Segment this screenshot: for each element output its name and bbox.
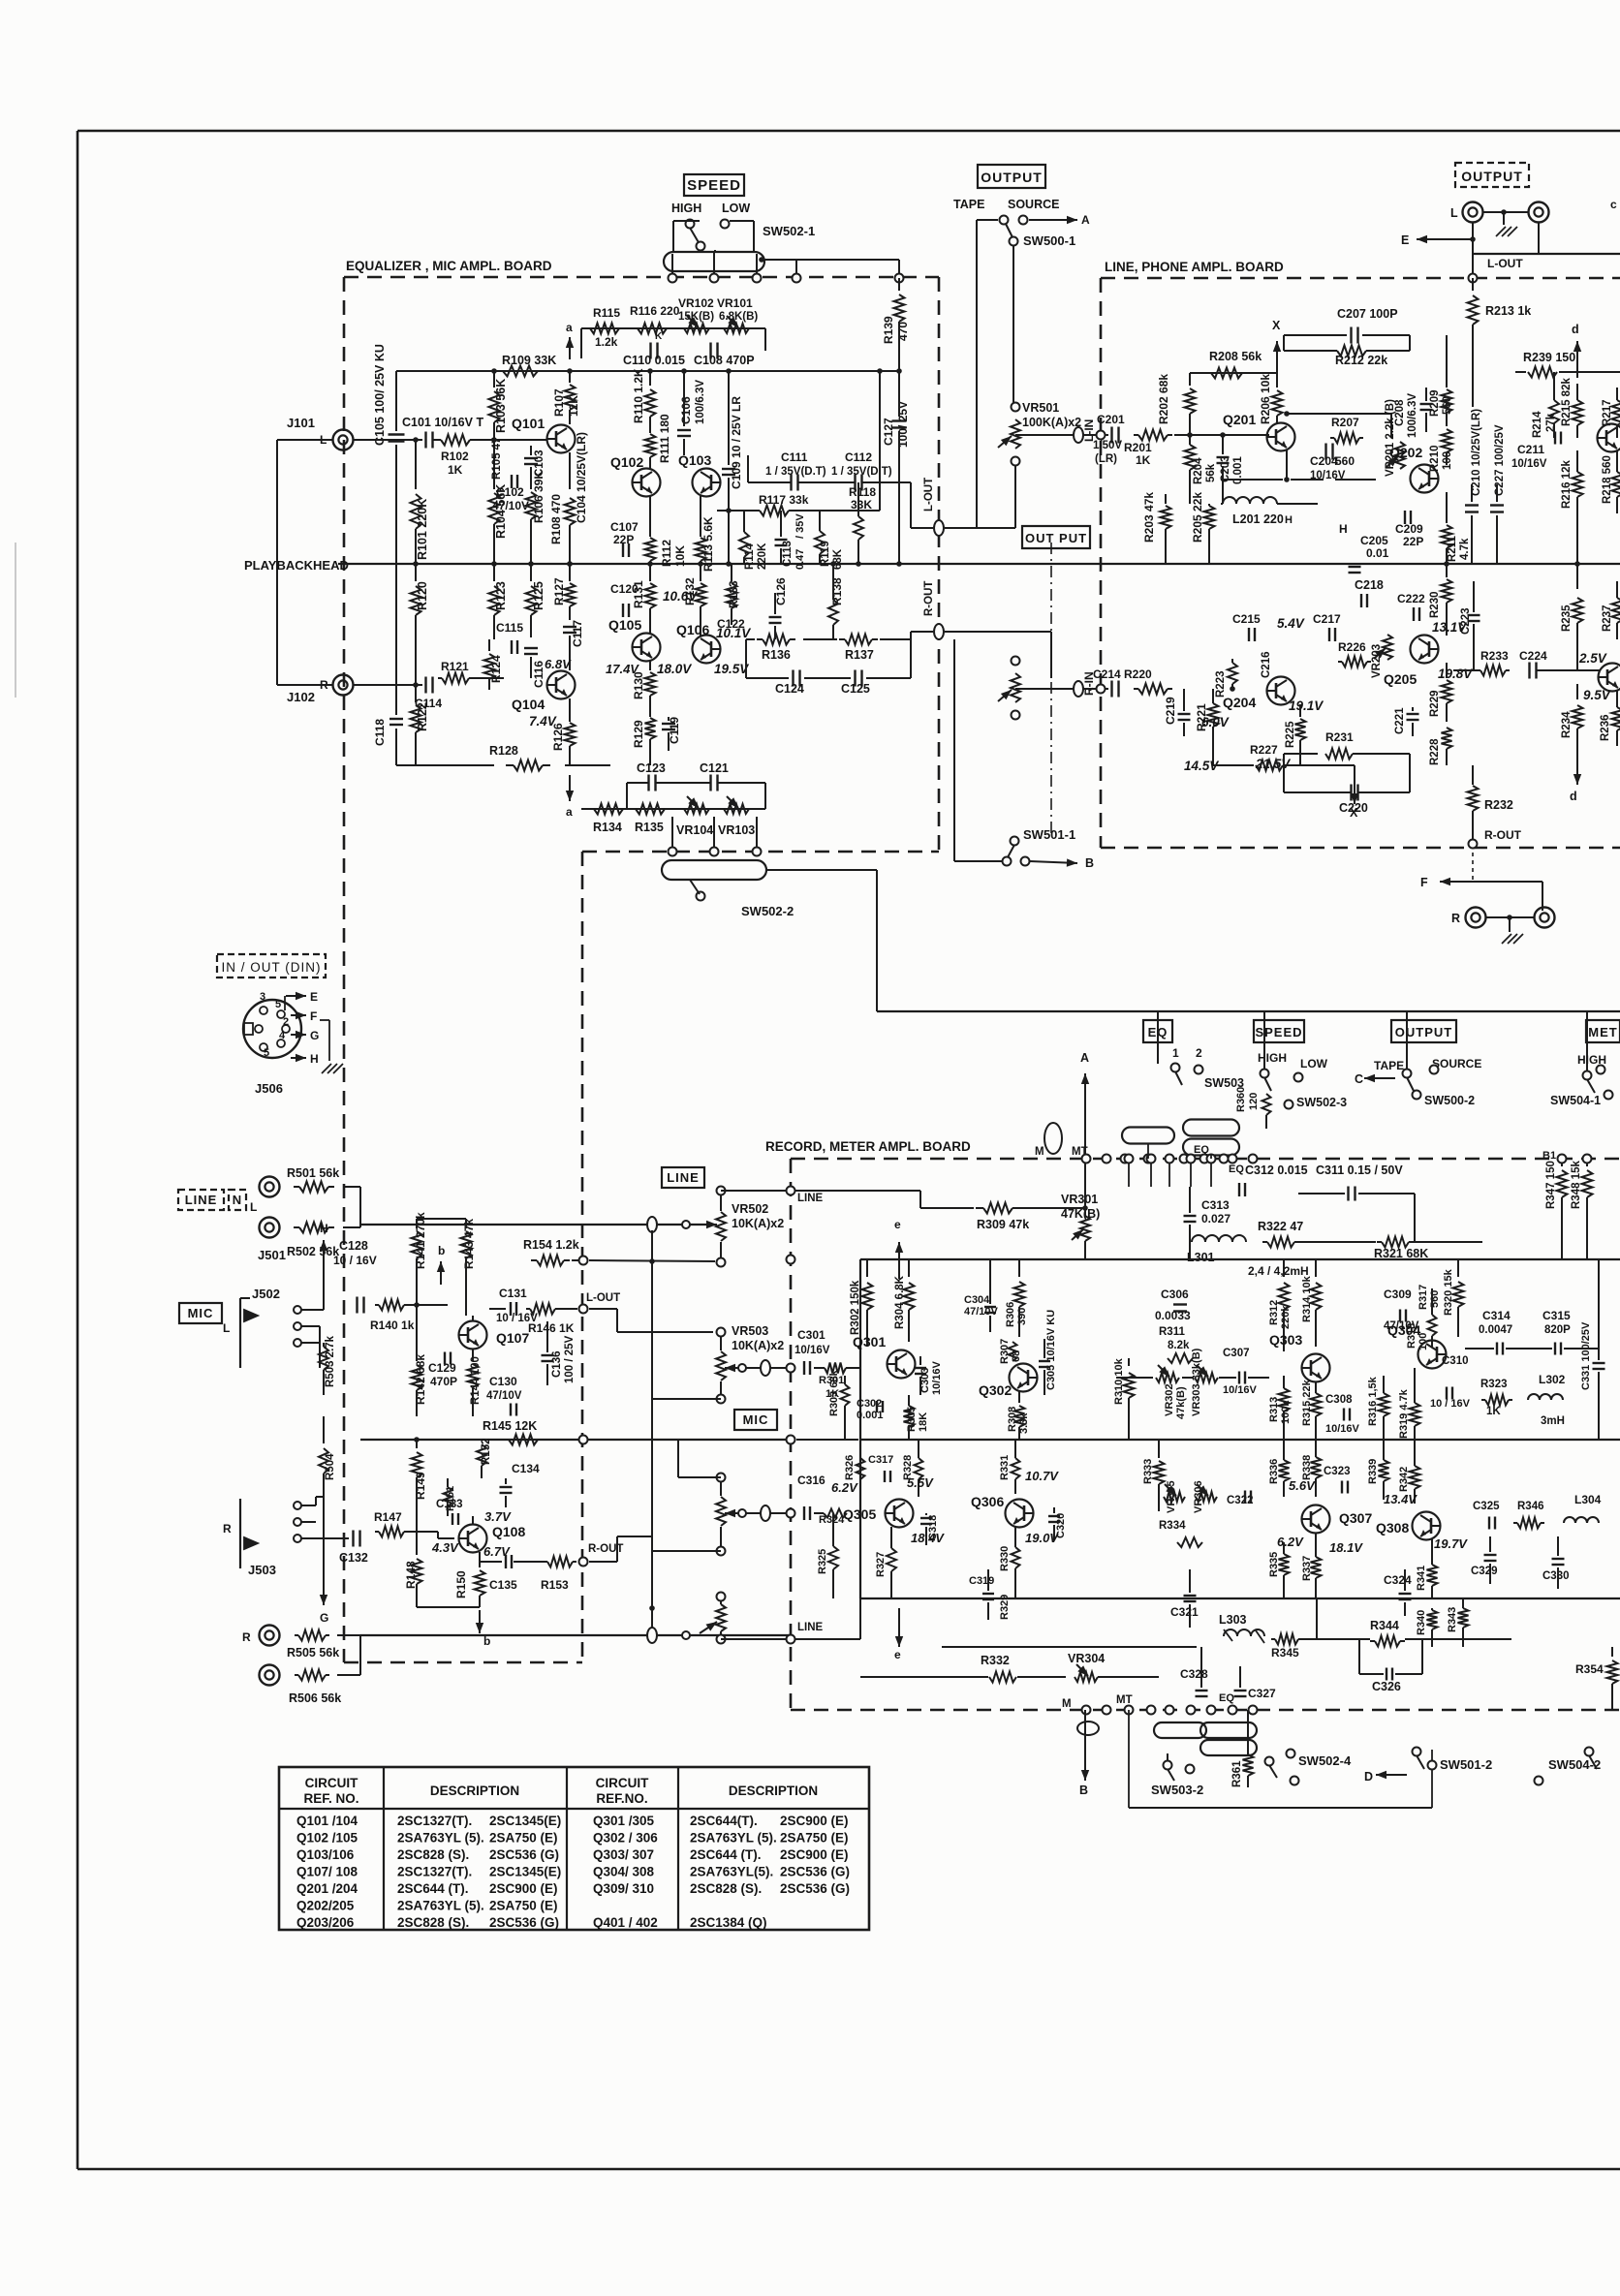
svg-text:R150: R150 xyxy=(454,1570,468,1598)
svg-text:C328: C328 xyxy=(1180,1667,1208,1681)
svg-text:C316: C316 xyxy=(797,1474,826,1487)
svg-text:Q103: Q103 xyxy=(678,452,711,468)
svg-text:RECORD, METER AMPL. BOARD: RECORD, METER AMPL. BOARD xyxy=(765,1139,971,1154)
svg-text:5.4V: 5.4V xyxy=(1277,616,1305,631)
svg-text:6.8K(B): 6.8K(B) xyxy=(719,311,758,323)
svg-text:L201 220: L201 220 xyxy=(1232,512,1284,526)
svg-text:Q303/ 307: Q303/ 307 xyxy=(593,1847,654,1862)
svg-text:Q105: Q105 xyxy=(608,617,641,633)
svg-text:4.7k: 4.7k xyxy=(1459,538,1471,560)
svg-text:LINE: LINE xyxy=(797,1622,824,1633)
svg-text:E: E xyxy=(310,990,318,1004)
svg-text:10K: 10K xyxy=(673,545,687,567)
svg-text:2SC1345(E): 2SC1345(E) xyxy=(489,1865,561,1879)
svg-text:R233: R233 xyxy=(1480,649,1509,663)
svg-text:D: D xyxy=(1364,1770,1373,1784)
svg-text:C134: C134 xyxy=(512,1462,540,1475)
svg-text:VR103: VR103 xyxy=(718,823,755,837)
svg-text:C312 0.015: C312 0.015 xyxy=(1245,1164,1308,1177)
svg-text:100/6.3V: 100/6.3V xyxy=(1407,393,1418,438)
svg-text:1 / 35V(D.T): 1 / 35V(D.T) xyxy=(765,466,826,478)
svg-text:R331: R331 xyxy=(999,1455,1011,1480)
svg-text:SPEED: SPEED xyxy=(687,177,741,194)
svg-text:Q301 /305: Q301 /305 xyxy=(593,1814,655,1828)
svg-text:H: H xyxy=(310,1052,319,1066)
svg-text:820P: 820P xyxy=(1544,1324,1571,1336)
svg-text:B1: B1 xyxy=(1542,1150,1556,1162)
svg-text:Q308: Q308 xyxy=(1376,1520,1409,1536)
svg-text:R117 33k: R117 33k xyxy=(759,493,809,507)
svg-text:Q307: Q307 xyxy=(1339,1510,1372,1526)
svg-text:2SA763YL (5).: 2SA763YL (5). xyxy=(397,1831,484,1846)
svg-text:Q107/ 108: Q107/ 108 xyxy=(296,1865,358,1879)
svg-text:H: H xyxy=(1285,514,1293,526)
svg-text:22P: 22P xyxy=(1403,535,1423,548)
svg-text:R118: R118 xyxy=(849,485,876,499)
svg-text:R103 56K: R103 56K xyxy=(494,379,508,433)
svg-text:5: 5 xyxy=(275,999,281,1010)
svg-text:R316 1,5k: R316 1,5k xyxy=(1367,1376,1379,1426)
svg-text:REF.NO.: REF.NO. xyxy=(596,1791,647,1806)
svg-text:EQUALIZER , MIC AMPL. BOARD: EQUALIZER , MIC AMPL. BOARD xyxy=(346,259,552,273)
svg-text:Q305: Q305 xyxy=(843,1506,876,1522)
svg-text:6.2V: 6.2V xyxy=(1277,1535,1304,1549)
svg-text:R342: R342 xyxy=(1398,1467,1410,1492)
svg-text:C101 10/16V T: C101 10/16V T xyxy=(402,416,483,429)
svg-text:C301: C301 xyxy=(797,1328,826,1342)
svg-text:SW504-2: SW504-2 xyxy=(1548,1757,1601,1772)
svg-text:R314 10k: R314 10k xyxy=(1301,1275,1313,1322)
svg-text:SW500-1: SW500-1 xyxy=(1023,233,1075,248)
svg-text:2,4 / 4,2mH: 2,4 / 4,2mH xyxy=(1248,1264,1309,1278)
svg-text:5.5V: 5.5V xyxy=(907,1475,934,1490)
svg-text:Q102: Q102 xyxy=(610,454,643,470)
svg-text:0.027: 0.027 xyxy=(1201,1212,1231,1226)
svg-text:10/16V: 10/16V xyxy=(1223,1384,1258,1396)
svg-text:L303: L303 xyxy=(1219,1613,1247,1627)
svg-text:10/16V: 10/16V xyxy=(1310,470,1346,481)
svg-text:J502: J502 xyxy=(252,1287,280,1301)
svg-text:R135: R135 xyxy=(635,821,664,834)
svg-text:a: a xyxy=(566,805,573,819)
svg-text:TAPE: TAPE xyxy=(953,198,984,211)
svg-text:470P: 470P xyxy=(430,1375,457,1388)
svg-text:C104 10/25V(LR): C104 10/25V(LR) xyxy=(575,432,588,523)
svg-text:J101: J101 xyxy=(287,416,315,430)
svg-text:R220: R220 xyxy=(1124,667,1152,681)
svg-text:VR101: VR101 xyxy=(717,296,753,310)
svg-text:b: b xyxy=(438,1244,445,1257)
svg-text:SW501-2: SW501-2 xyxy=(1440,1757,1492,1772)
svg-text:C108 470P: C108 470P xyxy=(694,354,755,367)
svg-text:2SA763YL (5).: 2SA763YL (5). xyxy=(690,1831,777,1846)
svg-text:4.3V: 4.3V xyxy=(431,1540,459,1555)
svg-text:6.2V: 6.2V xyxy=(831,1480,858,1495)
svg-text:R340: R340 xyxy=(1416,1610,1427,1635)
svg-text:1/50V: 1/50V xyxy=(1093,440,1122,451)
svg-text:C327: C327 xyxy=(1248,1687,1276,1700)
svg-text:SW503-2: SW503-2 xyxy=(1151,1783,1203,1797)
svg-text:R107: R107 xyxy=(552,388,566,417)
svg-text:C116: C116 xyxy=(532,661,545,688)
svg-text:SW502-1: SW502-1 xyxy=(763,224,815,238)
svg-text:15K(B): 15K(B) xyxy=(678,311,714,323)
svg-text:VR501: VR501 xyxy=(1022,401,1059,415)
svg-text:Q205: Q205 xyxy=(1384,671,1417,687)
svg-text:R129: R129 xyxy=(632,720,645,748)
svg-text:C219: C219 xyxy=(1164,697,1177,725)
svg-text:13.4V: 13.4V xyxy=(1384,1492,1417,1506)
svg-text:HIGH: HIGH xyxy=(1258,1051,1287,1065)
svg-text:2SC828 (S).: 2SC828 (S). xyxy=(397,1847,469,1862)
svg-text:C302: C302 xyxy=(857,1398,882,1410)
svg-text:H: H xyxy=(320,1222,328,1235)
svg-text:C304: C304 xyxy=(964,1294,990,1306)
svg-text:LINE: LINE xyxy=(185,1193,218,1207)
svg-text:M: M xyxy=(1062,1698,1072,1710)
svg-text:C122: C122 xyxy=(717,617,745,631)
svg-text:R341: R341 xyxy=(1416,1566,1427,1591)
svg-text:2SC1327(T).: 2SC1327(T). xyxy=(397,1814,472,1828)
svg-text:OUT PUT: OUT PUT xyxy=(1025,531,1087,545)
svg-text:R134: R134 xyxy=(593,821,622,834)
svg-text:A: A xyxy=(1080,1051,1089,1065)
svg-text:C210 10/25V(LR): C210 10/25V(LR) xyxy=(1471,409,1482,496)
svg-text:C121: C121 xyxy=(700,761,729,775)
svg-text:C135: C135 xyxy=(489,1578,517,1592)
svg-text:M: M xyxy=(1035,1146,1044,1158)
svg-text:MIC: MIC xyxy=(743,1412,769,1427)
svg-text:1: 1 xyxy=(1172,1046,1179,1060)
svg-text:EQ: EQ xyxy=(1229,1164,1244,1175)
svg-text:R315 22k: R315 22k xyxy=(1301,1379,1313,1426)
svg-text:C124: C124 xyxy=(775,682,804,696)
svg-text:N: N xyxy=(233,1193,242,1207)
svg-text:R333: R333 xyxy=(1142,1459,1154,1484)
svg-text:J506: J506 xyxy=(255,1081,283,1096)
svg-text:R229: R229 xyxy=(1429,691,1441,718)
svg-text:G: G xyxy=(320,1611,328,1625)
svg-text:C105 100/ 25V KU: C105 100/ 25V KU xyxy=(373,344,387,446)
svg-text:R121: R121 xyxy=(441,660,469,673)
svg-text:R354: R354 xyxy=(1575,1662,1604,1676)
svg-text:R309 47k: R309 47k xyxy=(977,1218,1029,1231)
svg-text:C314: C314 xyxy=(1482,1309,1511,1322)
svg-text:R501 56k: R501 56k xyxy=(287,1166,339,1180)
svg-text:MT: MT xyxy=(1116,1694,1133,1706)
svg-text:C218: C218 xyxy=(1355,578,1384,592)
svg-text:c: c xyxy=(1610,198,1617,211)
svg-text:3: 3 xyxy=(260,991,265,1003)
svg-text:R301: R301 xyxy=(819,1375,844,1386)
svg-text:2SC900 (E): 2SC900 (E) xyxy=(780,1814,849,1828)
svg-text:C126: C126 xyxy=(774,577,788,605)
svg-text:2SC828 (S).: 2SC828 (S). xyxy=(690,1881,762,1896)
svg-text:R311: R311 xyxy=(1159,1326,1185,1338)
svg-text:2SC1384 (Q): 2SC1384 (Q) xyxy=(690,1915,767,1930)
svg-text:b: b xyxy=(483,1634,490,1648)
svg-text:SW504-1: SW504-1 xyxy=(1550,1094,1601,1107)
svg-text:Q106: Q106 xyxy=(676,622,709,637)
svg-text:10 / 16V: 10 / 16V xyxy=(1430,1398,1471,1410)
svg-text:F: F xyxy=(1420,876,1428,889)
svg-text:J102: J102 xyxy=(287,690,315,704)
svg-text:C330: C330 xyxy=(1542,1570,1570,1582)
svg-text:C207 100P: C207 100P xyxy=(1337,307,1398,321)
svg-text:Q401 / 402: Q401 / 402 xyxy=(593,1915,658,1930)
svg-text:2SC1327(T).: 2SC1327(T). xyxy=(397,1865,472,1879)
svg-text:B: B xyxy=(1085,856,1094,870)
svg-text:R111 180: R111 180 xyxy=(658,414,671,463)
svg-text:REF. NO.: REF. NO. xyxy=(303,1791,358,1806)
svg-text:R230: R230 xyxy=(1429,592,1441,619)
svg-text:R228: R228 xyxy=(1429,738,1441,765)
svg-text:J501: J501 xyxy=(258,1248,286,1262)
svg-text:R323: R323 xyxy=(1480,1379,1508,1390)
svg-text:R336: R336 xyxy=(1268,1459,1280,1484)
svg-text:R234: R234 xyxy=(1561,711,1573,738)
svg-text:R145 12K: R145 12K xyxy=(483,1419,537,1433)
svg-text:Q304/ 308: Q304/ 308 xyxy=(593,1865,655,1879)
svg-text:10/16V: 10/16V xyxy=(1511,458,1547,470)
svg-text:C201: C201 xyxy=(1097,413,1125,426)
svg-text:R506 56k: R506 56k xyxy=(289,1691,341,1705)
svg-text:1 / 35V(D.T): 1 / 35V(D.T) xyxy=(831,466,892,478)
svg-text:C203: C203 xyxy=(1220,456,1231,483)
svg-text:18.1V: 18.1V xyxy=(1329,1540,1363,1555)
svg-text:C329: C329 xyxy=(1471,1566,1498,1577)
svg-text:C217: C217 xyxy=(1313,612,1341,626)
svg-text:R130: R130 xyxy=(632,671,645,699)
svg-text:9.5V: 9.5V xyxy=(1583,688,1611,702)
svg-text:1K: 1K xyxy=(1136,453,1151,467)
svg-text:B: B xyxy=(1079,1784,1088,1797)
svg-text:F: F xyxy=(310,1009,317,1023)
svg-text:L: L xyxy=(1450,206,1458,220)
svg-text:C130: C130 xyxy=(489,1375,517,1388)
svg-text:EQ: EQ xyxy=(1219,1692,1234,1704)
svg-text:R361: R361 xyxy=(1231,1760,1243,1787)
svg-text:C310: C310 xyxy=(1442,1355,1469,1367)
svg-text:R332: R332 xyxy=(981,1654,1010,1667)
svg-text:K: K xyxy=(655,331,663,342)
svg-text:C205: C205 xyxy=(1360,534,1388,547)
svg-text:2SC828 (S).: 2SC828 (S). xyxy=(397,1915,469,1930)
svg-text:2.5V: 2.5V xyxy=(1578,651,1607,666)
svg-text:47/10V: 47/10V xyxy=(486,1390,522,1402)
svg-text:LOW: LOW xyxy=(722,202,750,215)
svg-text:CIRCUIT: CIRCUIT xyxy=(305,1776,358,1790)
svg-text:R137: R137 xyxy=(845,648,874,662)
svg-text:Q101 /104: Q101 /104 xyxy=(296,1814,358,1828)
svg-text:L-OUT: L-OUT xyxy=(586,1292,620,1304)
svg-text:Q302 / 306: Q302 / 306 xyxy=(593,1831,658,1846)
svg-text:R310 10k: R310 10k xyxy=(1113,1357,1125,1405)
svg-text:10/16V: 10/16V xyxy=(931,1360,943,1395)
svg-text:R206 10k: R206 10k xyxy=(1259,374,1272,424)
svg-text:J503: J503 xyxy=(248,1563,276,1577)
svg-text:R201: R201 xyxy=(1124,441,1152,454)
svg-text:19.0V: 19.0V xyxy=(1025,1531,1059,1545)
svg-text:2: 2 xyxy=(1196,1046,1202,1060)
svg-text:PLAYBACKHEAD: PLAYBACKHEAD xyxy=(244,558,349,573)
svg-text:2SC644 (T).: 2SC644 (T). xyxy=(690,1847,762,1862)
svg-text:SW501-1: SW501-1 xyxy=(1023,827,1075,842)
svg-text:R322 47: R322 47 xyxy=(1258,1220,1303,1233)
svg-text:C102: C102 xyxy=(496,485,524,499)
svg-text:0.47: 0.47 xyxy=(794,549,806,570)
svg-text:R307: R307 xyxy=(999,1339,1011,1364)
svg-text:R231: R231 xyxy=(1325,730,1354,744)
svg-text:100/6.3V: 100/6.3V xyxy=(695,380,706,424)
svg-text:47k(B): 47k(B) xyxy=(1175,1386,1187,1419)
svg-text:R208 56k: R208 56k xyxy=(1209,350,1262,363)
svg-text:C222: C222 xyxy=(1397,592,1425,605)
svg-text:6.8V: 6.8V xyxy=(545,657,572,671)
svg-text:(LR): (LR) xyxy=(1095,453,1117,465)
svg-text:R335: R335 xyxy=(1268,1552,1280,1577)
svg-text:C125: C125 xyxy=(841,682,870,696)
svg-text:R-OUT: R-OUT xyxy=(1484,828,1522,842)
svg-text:R334: R334 xyxy=(1159,1520,1186,1532)
svg-text:L304: L304 xyxy=(1574,1493,1602,1506)
svg-text:R213 1k: R213 1k xyxy=(1485,304,1531,318)
svg-text:H: H xyxy=(1339,522,1348,536)
svg-text:CIRCUIT: CIRCUIT xyxy=(596,1776,649,1790)
svg-text:R: R xyxy=(223,1522,232,1536)
svg-text:R326: R326 xyxy=(844,1455,856,1480)
svg-text:47K(B): 47K(B) xyxy=(1061,1207,1100,1221)
svg-text:C132: C132 xyxy=(339,1551,368,1565)
svg-text:Q304: Q304 xyxy=(1387,1322,1420,1338)
svg-text:/ 35V: / 35V xyxy=(794,513,806,539)
svg-text:2SA750 (E): 2SA750 (E) xyxy=(780,1831,849,1846)
svg-text:C321: C321 xyxy=(1170,1605,1199,1619)
svg-text:C313: C313 xyxy=(1201,1198,1230,1212)
svg-text:R343: R343 xyxy=(1447,1607,1458,1632)
svg-text:10/16V: 10/16V xyxy=(1325,1423,1360,1435)
svg-text:10 / 16V: 10 / 16V xyxy=(333,1254,377,1267)
svg-text:C325: C325 xyxy=(1473,1501,1500,1512)
svg-text:2SA750 (E): 2SA750 (E) xyxy=(489,1899,558,1913)
svg-text:R237: R237 xyxy=(1602,605,1613,633)
svg-text:2SC536 (G): 2SC536 (G) xyxy=(489,1915,559,1930)
svg-text:C107: C107 xyxy=(610,520,639,534)
svg-text:L: L xyxy=(250,1200,257,1214)
svg-text:2SC644 (T).: 2SC644 (T). xyxy=(397,1881,469,1896)
svg-text:OUTPUT: OUTPUT xyxy=(1461,169,1523,184)
svg-text:R112: R112 xyxy=(660,540,673,567)
svg-text:2SC1345(E): 2SC1345(E) xyxy=(489,1814,561,1828)
svg-text:SW502-4: SW502-4 xyxy=(1298,1753,1352,1768)
svg-text:Q201 /204: Q201 /204 xyxy=(296,1881,358,1896)
svg-text:R330: R330 xyxy=(999,1546,1011,1571)
svg-text:R502 56k: R502 56k xyxy=(287,1245,339,1258)
svg-text:R345: R345 xyxy=(1271,1646,1299,1660)
svg-text:R235: R235 xyxy=(1561,605,1573,632)
svg-text:Q103/106: Q103/106 xyxy=(296,1847,355,1862)
svg-text:Q202: Q202 xyxy=(1389,445,1422,460)
svg-text:VR104: VR104 xyxy=(676,823,713,837)
svg-text:560: 560 xyxy=(1429,1290,1441,1308)
svg-text:0.001: 0.001 xyxy=(857,1410,884,1421)
svg-text:R102: R102 xyxy=(441,450,469,463)
svg-text:HIGH: HIGH xyxy=(671,202,701,215)
svg-text:R203 47k: R203 47k xyxy=(1142,492,1156,543)
svg-text:LINE: LINE xyxy=(667,1170,700,1185)
svg-text:390: 390 xyxy=(1016,1308,1028,1325)
svg-text:R232: R232 xyxy=(1484,798,1513,812)
svg-text:R136: R136 xyxy=(762,648,791,662)
svg-text:120: 120 xyxy=(1248,1093,1260,1110)
svg-text:C129: C129 xyxy=(428,1361,456,1375)
svg-text:L-OUT: L-OUT xyxy=(923,478,935,512)
svg-text:R126: R126 xyxy=(551,723,565,751)
svg-text:33K: 33K xyxy=(851,498,872,512)
svg-text:R218 560: R218 560 xyxy=(1602,455,1613,504)
svg-text:E: E xyxy=(1401,233,1409,247)
svg-text:LINE: LINE xyxy=(797,1193,824,1204)
svg-text:2: 2 xyxy=(283,1016,289,1028)
svg-text:VR301: VR301 xyxy=(1061,1193,1098,1206)
svg-text:Q102 /105: Q102 /105 xyxy=(296,1831,358,1846)
svg-text:Q302: Q302 xyxy=(979,1382,1012,1398)
svg-text:R113 5.6K: R113 5.6K xyxy=(701,516,715,572)
svg-text:2SC536 (G): 2SC536 (G) xyxy=(489,1847,559,1862)
svg-text:SOURCE: SOURCE xyxy=(1008,198,1059,211)
svg-text:10.7V: 10.7V xyxy=(1025,1469,1059,1483)
svg-text:C322: C322 xyxy=(1227,1495,1254,1506)
svg-text:R348 15k: R348 15k xyxy=(1571,1161,1582,1209)
svg-text:TAPE: TAPE xyxy=(1374,1059,1404,1072)
svg-text:R302 150k: R302 150k xyxy=(850,1280,861,1335)
svg-text:10K(A)x2: 10K(A)x2 xyxy=(732,1339,784,1352)
svg-text:C208: C208 xyxy=(1394,399,1406,426)
svg-text:R115: R115 xyxy=(593,306,620,320)
svg-text:C216: C216 xyxy=(1261,652,1272,679)
svg-text:DESCRIPTION: DESCRIPTION xyxy=(430,1784,519,1798)
svg-text:MET: MET xyxy=(1588,1025,1617,1039)
svg-text:18K: 18K xyxy=(918,1412,929,1432)
svg-text:4: 4 xyxy=(279,1030,286,1041)
svg-text:R360: R360 xyxy=(1235,1087,1247,1112)
svg-text:VR302: VR302 xyxy=(1164,1383,1175,1416)
svg-text:C110 0.015: C110 0.015 xyxy=(623,354,685,367)
svg-text:d: d xyxy=(1570,790,1577,803)
svg-text:R154 1.2k: R154 1.2k xyxy=(523,1238,579,1252)
svg-text:SPEED: SPEED xyxy=(1255,1025,1302,1039)
svg-text:R105 47: R105 47 xyxy=(491,438,503,480)
svg-text:Q301: Q301 xyxy=(853,1334,886,1350)
svg-text:19.5V: 19.5V xyxy=(714,662,749,676)
svg-text:C306: C306 xyxy=(1161,1288,1189,1301)
svg-text:R505 56k: R505 56k xyxy=(287,1646,339,1660)
svg-text:10K(A)x2: 10K(A)x2 xyxy=(732,1217,784,1230)
svg-text:Q306: Q306 xyxy=(971,1494,1004,1509)
svg-text:2SA750 (E): 2SA750 (E) xyxy=(489,1831,558,1846)
svg-text:OUTPUT: OUTPUT xyxy=(1395,1025,1452,1039)
svg-text:R223: R223 xyxy=(1215,671,1227,698)
svg-text:R339: R339 xyxy=(1367,1459,1379,1484)
svg-text:VR102: VR102 xyxy=(678,296,714,310)
svg-text:R320 15k: R320 15k xyxy=(1443,1268,1454,1316)
svg-text:L-IN: L-IN xyxy=(1082,419,1096,442)
svg-text:A: A xyxy=(1081,213,1090,227)
svg-text:C317: C317 xyxy=(868,1454,893,1466)
svg-text:R140 1k: R140 1k xyxy=(370,1319,415,1332)
svg-text:C128: C128 xyxy=(339,1239,368,1253)
svg-text:C224: C224 xyxy=(1519,649,1547,663)
